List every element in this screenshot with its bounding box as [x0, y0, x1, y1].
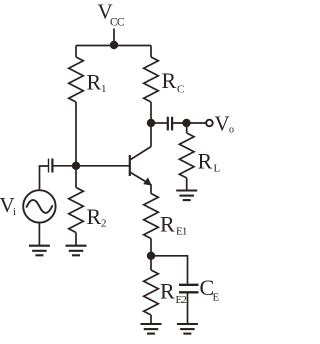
svg-text:E: E — [213, 292, 220, 304]
svg-text:R: R — [160, 279, 175, 304]
svg-text:o: o — [229, 125, 234, 136]
svg-text:CC: CC — [110, 17, 125, 29]
svg-text:R: R — [198, 149, 213, 174]
svg-text:V: V — [215, 112, 230, 136]
svg-text:E2: E2 — [176, 294, 187, 306]
svg-text:i: i — [13, 206, 16, 218]
svg-text:E1: E1 — [176, 226, 187, 238]
svg-text:R: R — [87, 70, 102, 95]
svg-text:2: 2 — [101, 218, 107, 230]
svg-text:R: R — [87, 204, 102, 229]
svg-text:R: R — [162, 68, 177, 93]
svg-text:L: L — [214, 163, 221, 175]
svg-text:C: C — [177, 84, 184, 96]
svg-text:1: 1 — [101, 83, 107, 95]
svg-text:R: R — [160, 212, 175, 237]
